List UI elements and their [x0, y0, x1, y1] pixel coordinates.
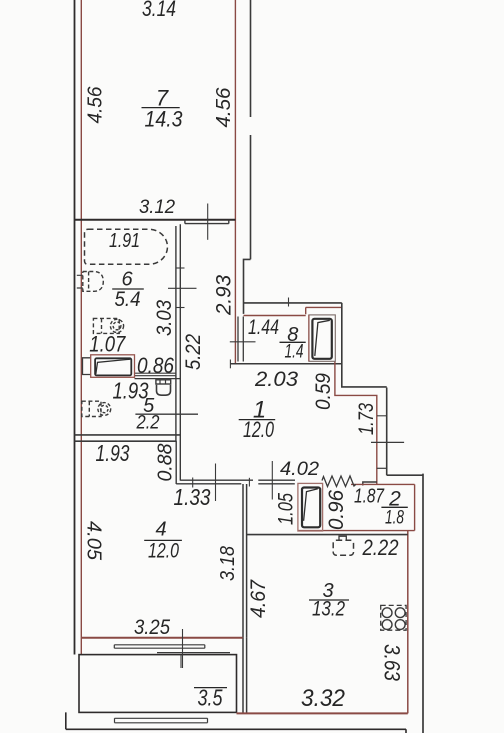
wire balcony outline [79, 655, 237, 713]
dimension tick 1.33 right [248, 478, 250, 487]
label room4 bar [144, 539, 182, 541]
wire left inner wall red line [80, 0, 82, 655]
svg-text:2.93: 2.93 [213, 275, 236, 316]
svg-text:4: 4 [155, 519, 166, 541]
wire room4 window lines [114, 645, 205, 648]
wire room7 right inner red line [234, 0, 236, 364]
svg-text:3.32: 3.32 [301, 685, 345, 712]
dimension tick corridor y307 [177, 307, 185, 309]
wire left outer wall black line [74, 0, 76, 655]
svg-text:1.87: 1.87 [354, 486, 385, 508]
door entry room1 [298, 483, 323, 531]
svg-text:3.03: 3.03 [153, 300, 176, 336]
wire room8 top black wall [244, 302, 342, 304]
dimension line 2.2 extension [135, 413, 198, 415]
wire room8 top red inner line [244, 315, 306, 317]
svg-text:1.05: 1.05 [275, 493, 298, 525]
label room6 bar [112, 288, 144, 290]
svg-text:1.73: 1.73 [355, 403, 378, 435]
svg-text:3.12: 3.12 [139, 197, 175, 218]
svg-text:1.91: 1.91 [109, 230, 140, 252]
bathtub [85, 229, 168, 264]
svg-text:1.33: 1.33 [174, 484, 211, 510]
svg-text:4.05: 4.05 [83, 521, 105, 561]
svg-text:12.0: 12.0 [243, 417, 275, 442]
wire wall room3 balcony vertical double [243, 638, 247, 714]
wire connector red-black y468 [377, 467, 387, 469]
wire bottom outer line [66, 712, 406, 733]
wire room3 top black wall [247, 534, 408, 536]
svg-text:0.59: 0.59 [312, 373, 335, 410]
wire room3 bottom red wall [237, 712, 408, 714]
dimension extension x272 [271, 461, 273, 500]
wire right outer black wall [422, 474, 424, 733]
wire partition zigzag [322, 476, 356, 487]
washbasin room5 [82, 401, 111, 416]
svg-text:4.56: 4.56 [85, 86, 107, 124]
wire room8 bottom wall [230, 363, 341, 365]
svg-text:3.63: 3.63 [380, 644, 405, 682]
wire room1 bottom wall lower line [176, 483, 295, 485]
toilet [156, 380, 171, 395]
svg-text:0.86: 0.86 [137, 353, 175, 378]
label room3 bar [309, 599, 349, 601]
svg-text:1.8: 1.8 [385, 508, 404, 529]
svg-text:4.02: 4.02 [280, 459, 319, 480]
wire room1 bottom wall upper line [180, 479, 295, 481]
dimension tick room8 top wall [288, 298, 290, 307]
wire lower window lines [115, 718, 208, 723]
dimension extension 3.25 window [182, 629, 184, 668]
wire room8 top red lintel [306, 307, 342, 314]
wire bathroom right wall line B [179, 224, 181, 480]
door room8 [309, 315, 335, 361]
wire entry black outer path [342, 303, 423, 475]
wire room4 window sill line [157, 652, 230, 654]
wire wall between room5 and room4 [75, 435, 181, 441]
dimension tick 1.33 left [192, 478, 194, 488]
door bathroom jamb [82, 355, 135, 378]
svg-text:14.3: 14.3 [145, 107, 184, 132]
svg-text:4.67: 4.67 [247, 579, 270, 618]
svg-text:2.22: 2.22 [362, 535, 399, 560]
svg-text:5.22: 5.22 [182, 334, 205, 370]
wire shelf lines between vent and wall [135, 373, 181, 378]
wire hallway top inner line [185, 220, 229, 224]
stove [381, 605, 406, 630]
wire entry red inner path [335, 361, 377, 484]
svg-text:1.44: 1.44 [248, 316, 279, 339]
svg-text:2.2: 2.2 [136, 413, 160, 434]
label room7 bar [142, 107, 180, 109]
wire room3 right red wall [407, 531, 409, 714]
wire wall room4 entry vertical double [243, 484, 247, 638]
svg-text:1.07: 1.07 [89, 332, 126, 357]
label room8 bar [280, 341, 306, 343]
svg-text:12.0: 12.0 [148, 540, 179, 563]
svg-text:3.18: 3.18 [217, 546, 239, 581]
wire room4 bottom red wall [81, 637, 242, 639]
svg-text:0.96: 0.96 [325, 490, 348, 530]
wire room7 bottom wall [75, 219, 236, 221]
svg-text:4.56: 4.56 [213, 87, 235, 128]
svg-text:13.2: 13.2 [312, 598, 345, 621]
label room2 bar [381, 506, 407, 508]
wire balcony window mark [180, 655, 182, 668]
wire bathroom right wall line A [175, 226, 177, 484]
dimension extension x215 [215, 464, 217, 502]
wire outer corridor jog [244, 259, 251, 314]
wire black elbow above room2 [363, 482, 377, 486]
kitchen sink [333, 536, 353, 555]
wire room7 right outer black line [250, 0, 252, 259]
wire room2 right red wall [414, 484, 416, 530]
dimension tick corridor y268 [177, 267, 185, 269]
dimension line corridor y288 [168, 287, 197, 289]
dimension tick 1.73 top [377, 415, 386, 417]
label room1 bar [239, 419, 276, 421]
svg-text:3.25: 3.25 [134, 616, 170, 639]
svg-text:1.93: 1.93 [96, 440, 130, 466]
dimension extension 3.12 right [207, 204, 209, 240]
dimension line y442 [371, 441, 404, 443]
svg-text:3.5: 3.5 [198, 685, 223, 711]
svg-text:1.4: 1.4 [285, 342, 304, 363]
wire room8 left wall double line [238, 317, 243, 362]
svg-text:3.14: 3.14 [142, 0, 176, 21]
dimension line 1.44 [230, 341, 256, 343]
wire room8 bottom dim end tick [229, 360, 231, 369]
svg-text:0.88: 0.88 [155, 444, 177, 482]
washing machine [93, 318, 123, 333]
wire room2 top red wall [351, 483, 415, 485]
label balcony bar [194, 687, 227, 689]
svg-text:5.4: 5.4 [115, 288, 141, 311]
wire room2 bottom red wall [298, 530, 415, 532]
washbasin room6 [77, 272, 104, 292]
svg-text:2.03: 2.03 [254, 368, 298, 391]
